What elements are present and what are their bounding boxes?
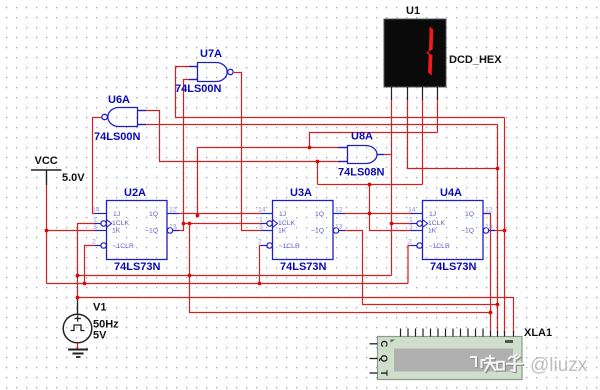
svg-text:1K: 1K [428, 228, 437, 235]
wire U2A.1Q to U3A.1J [179, 213, 261, 215]
small marks [505, 340, 513, 343]
input stubs U6A [138, 110, 147, 112]
wire NetA drop x=369.5 to U4A 1J/1K [370, 185, 413, 231]
square wave glyph [71, 325, 85, 331]
svg-text:U1: U1 [406, 5, 420, 17]
svg-text:1Q: 1Q [465, 211, 474, 218]
svg-text:U8A: U8A [351, 131, 373, 143]
node CLR bus U2A [83, 282, 87, 286]
svg-text:14: 14 [258, 207, 266, 214]
svg-text:2: 2 [258, 239, 262, 246]
svg-text:3: 3 [409, 224, 413, 231]
watermark zhihu (vector strokes) [486, 356, 524, 372]
node clock y=275 [76, 274, 80, 278]
node U3A.1Q / U4A 1J1K dot [368, 212, 372, 216]
node U4A.1CLK branch [390, 222, 394, 226]
svg-text:1: 1 [409, 217, 413, 224]
node NetA x=369.5 dot [368, 183, 372, 187]
svg-text:1K: 1K [112, 228, 121, 235]
wire U3A.1Q stub line to U4A.1J [345, 213, 413, 215]
wire clock to XLA pin16 [78, 298, 514, 334]
svg-text:T: T [378, 370, 389, 376]
node V12/U4A.~1Q [503, 229, 507, 233]
flip-flop U2A 74LS73N [92, 201, 179, 260]
svg-text:5V: 5V [93, 330, 107, 342]
node W7/U1pin3 branch junction [308, 146, 312, 150]
left terminals C Q T [370, 344, 378, 373]
wire clock V1 riser to U2A.1CLK [78, 224, 95, 302]
pin 4 of U1 [437, 87, 439, 100]
svg-text:~1Q: ~1Q [311, 228, 324, 235]
svg-text:14: 14 [92, 207, 100, 214]
svg-text:U2A: U2A [124, 187, 146, 199]
node U2A.1Q/W7 [196, 214, 200, 218]
ground [68, 350, 88, 358]
wire U1 pin1 / U8A.out vertical [391, 99, 393, 276]
pin 1 of U1 [391, 87, 393, 100]
svg-text:3: 3 [93, 224, 97, 231]
NAND gate U7A [189, 63, 233, 82]
wire U2A.~1CLR riser [85, 246, 95, 284]
svg-text:1CLK: 1CLK [112, 220, 129, 227]
top pins [401, 329, 514, 337]
svg-text:5.0V: 5.0V [62, 172, 85, 184]
stubs [95, 214, 180, 246]
input stubs U7A [189, 66, 198, 68]
watermark traces on screen [470, 356, 487, 369]
svg-text:2: 2 [408, 239, 412, 246]
node V11/pin14 feeder [496, 303, 500, 307]
wire U7A.in1 to W4 horizontal y=117 to x=505 [176, 67, 505, 118]
svg-text:1Q: 1Q [315, 211, 324, 218]
logic analyzer XLA1 [370, 329, 523, 380]
wire W7 vertical x=197.5 down to U2A.1Q line [197, 148, 199, 216]
wire U7A.in2 vertical to U2A ~1Q net [184, 80, 198, 224]
wire U8A.out branch to U4A.1CLK [392, 223, 411, 225]
svg-text:3: 3 [259, 224, 263, 231]
svg-text:13: 13 [485, 224, 493, 231]
svg-text:~1CLR: ~1CLR [113, 243, 134, 250]
bubble ~1Q [167, 228, 172, 233]
wire VCC to U2A.1K [47, 230, 95, 232]
wire vertical B x=189.5 down to pin13 feeder [190, 224, 491, 334]
wire U6A.in2 long horizontal to U1 pin4 and V11 (net W3) [138, 124, 498, 126]
wire U2A ~1Q riser and line to U3A.1CLK [174, 224, 261, 231]
svg-text:74LS73N: 74LS73N [430, 261, 477, 273]
wire NetA riser to W2 dot [317, 162, 319, 185]
svg-text:~1CLR: ~1CLR [279, 243, 300, 250]
svg-text:U3A: U3A [290, 187, 312, 199]
svg-text:12: 12 [335, 207, 343, 214]
node W2/NetA junction [316, 160, 320, 164]
wire U4A.~1Q to V12 [489, 230, 505, 232]
svg-text:1J: 1J [429, 211, 436, 218]
svg-text:74LS00N: 74LS00N [94, 131, 141, 143]
wire W7 U8A.in1 horizontal y=148 [198, 147, 348, 149]
wire U1 pin4 branch left to W7 [310, 133, 438, 148]
bubble of U6A [102, 114, 107, 119]
pin 2 of U1 [407, 87, 409, 100]
svg-text:74LS08N: 74LS08N [338, 167, 385, 179]
svg-text:2: 2 [92, 239, 96, 246]
wire U1 pin2 down and right to V11 [408, 99, 498, 169]
wire VCC CLR bus y=283.5 [47, 283, 409, 285]
svg-text:Q: Q [378, 355, 389, 362]
AND gate U8A [338, 146, 384, 164]
svg-text:@liuzx: @liuzx [530, 355, 588, 376]
svg-text:1K: 1K [278, 228, 287, 235]
wire U3A.~1Q down to XLA pin14 feeder [345, 231, 498, 305]
svg-text:DCD_HEX: DCD_HEX [449, 54, 502, 66]
wire V12 x=504.8 from W4 to XLA pin15 [504, 118, 506, 334]
node U2A.~1Q riser [182, 222, 186, 226]
VCC symbol [31, 170, 62, 185]
wire U4A.1Q drop to pin13 feeder [483, 214, 491, 313]
svg-text:13: 13 [335, 224, 343, 231]
plus sign [75, 315, 82, 321]
svg-text:XLA1: XLA1 [524, 327, 552, 339]
svg-text:74LS00N: 74LS00N [175, 83, 222, 95]
svg-text:1J: 1J [113, 211, 120, 218]
svg-text:U4A: U4A [440, 187, 462, 199]
wire U4A.~1CLR riser [408, 246, 411, 284]
pin 3 of U1 [422, 87, 424, 100]
svg-text:VCC: VCC [35, 155, 58, 167]
svg-text:U6A: U6A [108, 94, 130, 106]
segment g remnant notch [426, 51, 429, 56]
svg-text:13: 13 [169, 224, 177, 231]
svg-text:74LS73N: 74LS73N [280, 261, 327, 273]
wire NetA horizontal y=184.5 [318, 184, 423, 186]
segment c (bottom right) of digit 1 [428, 54, 432, 76]
bubble 1CLK [101, 221, 106, 226]
wire U6A.in1 to U8A.in2 (net W2) [138, 111, 348, 162]
svg-text:14: 14 [408, 207, 416, 214]
node clock y=297 [76, 296, 80, 300]
svg-text:1J: 1J [279, 211, 286, 218]
wire VCC vertical [46, 185, 48, 284]
segment b (top right) of digit 1 [429, 27, 433, 52]
svg-text:74LS73N: 74LS73N [114, 261, 161, 273]
node pin13 feeder / U4A.1Q [489, 311, 493, 315]
output stub U8A [378, 154, 385, 156]
node vertical B y=275 [188, 274, 192, 278]
wire U1 pin3 vertical down to NetA [422, 99, 424, 185]
node CLR bus U3A [258, 282, 262, 286]
seven-segment display U1 [384, 5, 502, 100]
bubble ~1CLR [101, 243, 106, 248]
svg-text:~1Q: ~1Q [145, 228, 158, 235]
svg-text:1CLK: 1CLK [428, 220, 445, 227]
svg-text:U7A: U7A [200, 48, 222, 60]
flip-flop U3A 74LS73N [258, 201, 345, 260]
flip-flop U4A 74LS73N [408, 201, 495, 260]
input stubs U8A [338, 147, 348, 149]
wire V11 x=497.9 from W3 to XLA pin14 [497, 125, 499, 334]
svg-text:12: 12 [485, 207, 493, 214]
node U1pin2/V11 [496, 167, 500, 171]
wire U6A.out to U2A.1J vertical [93, 118, 102, 214]
svg-text:C: C [378, 340, 389, 347]
wire U3A.~1CLR riser [260, 246, 261, 284]
svg-text:1CLK: 1CLK [278, 220, 295, 227]
node VCC 1K tap [45, 229, 49, 233]
bubble of U7A [228, 69, 233, 74]
svg-text:1Q: 1Q [149, 211, 158, 218]
clock chevron [107, 220, 112, 228]
wire U7A.out to U3A.1K [234, 73, 261, 231]
svg-text:~1CLR: ~1CLR [429, 243, 450, 250]
svg-text:V1: V1 [93, 302, 106, 314]
svg-text:~1Q: ~1Q [461, 228, 474, 235]
svg-text:1: 1 [259, 217, 263, 224]
NAND gate U6A (mirrored) [102, 108, 146, 127]
wire y=275 horizontal from clock to U1 pin1 vertical [78, 275, 392, 277]
svg-text:12: 12 [169, 207, 177, 214]
node vertical B top [188, 222, 192, 226]
wire U1 pin4 drop to y=132.5 branch [437, 99, 439, 133]
screen [394, 349, 513, 372]
wire U8A.out into vertical [378, 154, 392, 156]
svg-text:1: 1 [93, 217, 97, 224]
source V1 [63, 300, 92, 350]
